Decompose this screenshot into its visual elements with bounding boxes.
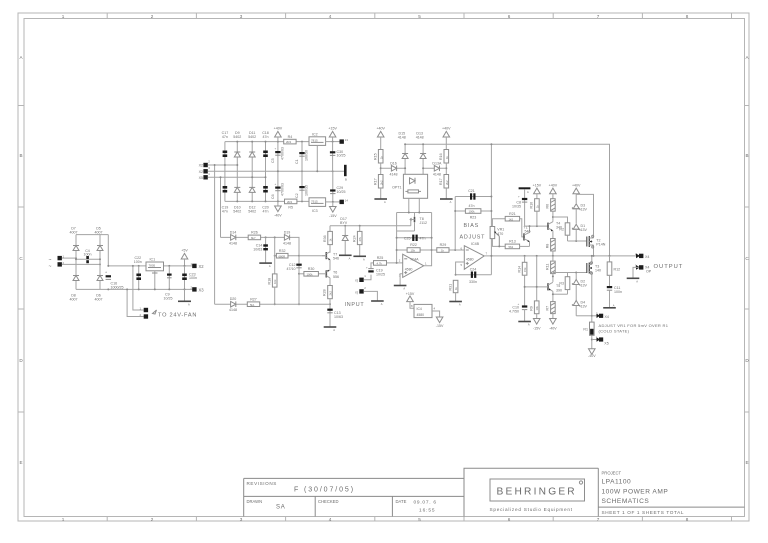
wire C21 row bbox=[455, 196, 491, 198]
power -40V arrow PSU bbox=[274, 201, 282, 217]
wire IC4B plus input bbox=[456, 262, 465, 275]
rail D9/D10 bbox=[236, 142, 238, 202]
wire IC3 out bbox=[326, 201, 340, 203]
svg-text:T7: T7 bbox=[333, 252, 337, 256]
svg-text:A: A bbox=[381, 302, 383, 306]
svg-text:X2: X2 bbox=[199, 264, 205, 269]
node fan wire 2 bbox=[126, 288, 128, 290]
diode D13A bbox=[423, 162, 446, 177]
wire pad2 to bridge bbox=[62, 263, 100, 265]
svg-text:2R2: 2R2 bbox=[287, 200, 293, 204]
wire T7 base row bbox=[299, 255, 326, 257]
resistor R9 bbox=[529, 255, 539, 319]
svg-text:A: A bbox=[269, 264, 271, 268]
wire PSU bottom rail bbox=[225, 200, 309, 202]
svg-text:100n: 100n bbox=[614, 290, 622, 294]
power +15V arrow IC2 bbox=[328, 127, 337, 143]
label TO 24V-FAN bbox=[153, 310, 198, 319]
svg-text:INPUT: INPUT bbox=[345, 302, 365, 308]
svg-text:E: E bbox=[19, 460, 22, 465]
node R23 right bbox=[490, 210, 492, 212]
svg-text:R17: R17 bbox=[439, 178, 443, 185]
node zener gate top bbox=[575, 240, 577, 242]
svg-text:C6: C6 bbox=[271, 194, 275, 199]
node sense feedback bbox=[490, 143, 492, 145]
svg-text:+40V: +40V bbox=[442, 127, 451, 131]
pad X5 sense bbox=[592, 312, 609, 319]
node R23 left bbox=[454, 210, 456, 212]
behringer logo bbox=[490, 479, 585, 501]
svg-text:680R: 680R bbox=[279, 254, 286, 258]
resistor R25 bbox=[374, 256, 387, 265]
svg-text:4007: 4007 bbox=[95, 298, 103, 302]
svg-text:SCHEMATICS: SCHEMATICS bbox=[602, 498, 650, 505]
node bridge right AC bbox=[99, 263, 101, 265]
svg-text:3: 3 bbox=[240, 517, 243, 522]
svg-text:B: B bbox=[19, 153, 22, 158]
wire V+ to IC1 bbox=[108, 265, 194, 267]
svg-text:D13A: D13A bbox=[432, 162, 442, 166]
svg-text:100/35: 100/35 bbox=[305, 185, 309, 196]
node VR1 wiper join bbox=[498, 245, 500, 247]
optocoupler OPT1 bbox=[392, 174, 427, 198]
pad input signal bbox=[355, 274, 366, 283]
power +40V arrow T2 bbox=[572, 183, 581, 203]
zener D2 bbox=[572, 273, 587, 288]
resistor R17 bbox=[374, 175, 384, 189]
svg-text:-40V: -40V bbox=[588, 354, 596, 358]
wire VR1 bottom to R13 bbox=[492, 239, 505, 247]
svg-text:IC2: IC2 bbox=[312, 132, 318, 136]
ground R24 bbox=[353, 256, 366, 261]
wire bridge top bbox=[76, 234, 108, 236]
node R22 right bbox=[431, 249, 433, 251]
ground fan psu bbox=[178, 289, 191, 306]
wire input pad to C19 bbox=[364, 275, 371, 280]
svg-text:A: A bbox=[349, 256, 351, 260]
transistor T8 J112 bbox=[397, 213, 427, 232]
svg-text:IC4B: IC4B bbox=[471, 242, 480, 246]
diode D13 bbox=[416, 132, 426, 175]
ground IC4A plus bbox=[394, 286, 407, 291]
power +40V arrow R16 bbox=[442, 127, 451, 150]
svg-text:REVISIONS: REVISIONS bbox=[247, 481, 277, 486]
svg-text:T6: T6 bbox=[333, 271, 337, 275]
svg-text:10k: 10k bbox=[535, 305, 539, 310]
capacitor C10 bbox=[509, 302, 527, 321]
svg-text:7: 7 bbox=[597, 517, 600, 522]
svg-text:13V: 13V bbox=[581, 208, 588, 212]
capacitor C11 bbox=[607, 286, 622, 308]
svg-text:2: 2 bbox=[151, 517, 154, 522]
svg-text:A: A bbox=[636, 279, 638, 283]
svg-text:6: 6 bbox=[508, 517, 511, 522]
svg-text:4580: 4580 bbox=[466, 257, 474, 261]
svg-text:B: B bbox=[745, 153, 748, 158]
opamp IC4A bbox=[399, 254, 427, 277]
node bottom rail junctions bbox=[236, 200, 303, 202]
ground C13 bbox=[324, 327, 337, 332]
svg-text:-15V: -15V bbox=[533, 326, 541, 330]
ground input bbox=[371, 301, 384, 306]
svg-text:+40V: +40V bbox=[549, 183, 558, 187]
ground R17 bbox=[374, 188, 387, 204]
svg-text:T2: T2 bbox=[596, 238, 600, 242]
svg-text:R18: R18 bbox=[267, 278, 271, 285]
svg-text:R8: R8 bbox=[546, 244, 550, 249]
wire T6 base from R30 bbox=[318, 273, 326, 275]
svg-text:4148: 4148 bbox=[416, 136, 424, 140]
svg-text:R16: R16 bbox=[439, 153, 443, 160]
svg-text:~: ~ bbox=[49, 264, 52, 270]
ground D17 bbox=[339, 255, 352, 260]
svg-text:470: 470 bbox=[497, 232, 503, 236]
regulator IC3 bbox=[309, 198, 326, 213]
node fan wire 1 bbox=[132, 265, 134, 267]
resistor R12 zobel bbox=[607, 256, 620, 286]
svg-text:A: A bbox=[403, 287, 405, 291]
wire clamp top row bbox=[221, 237, 300, 255]
capacitor C23 bbox=[182, 266, 197, 291]
diode D6 bbox=[95, 276, 104, 302]
capacitor C13 bbox=[327, 304, 343, 327]
svg-text:B: B bbox=[345, 178, 347, 182]
wire OPT1 pin bottom right bbox=[418, 198, 420, 212]
svg-text:10/25: 10/25 bbox=[164, 296, 173, 300]
svg-text:+40V: +40V bbox=[572, 183, 581, 187]
power +15V arrow R10 bbox=[533, 183, 542, 198]
wire R23 row bbox=[455, 210, 491, 212]
wire AC leg 2 bbox=[208, 176, 266, 178]
capacitor C14 bbox=[253, 237, 268, 262]
svg-text:R31: R31 bbox=[448, 284, 452, 291]
svg-text:1: 1 bbox=[62, 14, 65, 19]
svg-text:A: A bbox=[188, 303, 190, 307]
svg-text:+: + bbox=[366, 265, 368, 269]
svg-text:10/25: 10/25 bbox=[376, 273, 385, 277]
resistor R23 bbox=[465, 209, 481, 220]
svg-text:OPT1: OPT1 bbox=[392, 186, 401, 190]
diode D14 bbox=[229, 230, 237, 245]
label adjust note bbox=[599, 323, 669, 333]
svg-text:13V: 13V bbox=[581, 305, 588, 309]
svg-text:330n: 330n bbox=[469, 280, 477, 284]
transistor T5 bbox=[548, 282, 562, 301]
wire R22 row bbox=[397, 249, 432, 251]
pad X5 bbox=[199, 166, 211, 174]
wire R15 to junction bbox=[380, 163, 382, 175]
svg-text:+: + bbox=[518, 195, 520, 199]
wire pad1 to bridge bbox=[62, 257, 76, 259]
zener D4 bbox=[572, 285, 587, 316]
svg-text:A: A bbox=[527, 190, 529, 194]
svg-text:5402: 5402 bbox=[248, 135, 256, 139]
svg-text:+: + bbox=[275, 147, 277, 151]
svg-text:ADJUST VR1 FOR 5mV OVER R1: ADJUST VR1 FOR 5mV OVER R1 bbox=[599, 323, 669, 328]
wire OPT1 pin bottom left bbox=[408, 198, 410, 212]
wire bridge bottom bbox=[76, 288, 108, 290]
node R3 bottom bbox=[552, 293, 554, 295]
svg-text:IC4: IC4 bbox=[417, 307, 422, 311]
node zener gate bottom bbox=[575, 272, 577, 274]
wire T4 base row bbox=[525, 225, 548, 227]
transistor T6 bbox=[326, 260, 339, 279]
svg-text:A: A bbox=[363, 257, 365, 261]
node sense D13 bbox=[422, 143, 424, 145]
svg-text:100/50: 100/50 bbox=[305, 150, 309, 161]
node R25 rail bbox=[396, 262, 398, 264]
svg-text:T3: T3 bbox=[595, 264, 599, 268]
wire 0V center bbox=[208, 170, 344, 172]
resistor R27 bbox=[247, 297, 259, 306]
svg-text:D14: D14 bbox=[230, 230, 237, 234]
svg-text:100k: 100k bbox=[469, 210, 476, 214]
svg-text:R26: R26 bbox=[251, 231, 258, 235]
svg-text:R36: R36 bbox=[323, 235, 327, 242]
node zobel out bbox=[609, 255, 611, 257]
wire clamp bottom row bbox=[215, 303, 330, 305]
svg-text:C24: C24 bbox=[470, 267, 477, 271]
svg-text:1: 1 bbox=[62, 517, 65, 522]
power +40V arrow PSU bbox=[274, 127, 283, 142]
svg-text:R25: R25 bbox=[377, 256, 384, 260]
svg-text:D16: D16 bbox=[390, 162, 397, 166]
wire output sense line top bbox=[405, 144, 609, 256]
node R22 left bbox=[396, 249, 398, 251]
ground R18b bbox=[440, 188, 453, 204]
capacitor C22 bbox=[134, 256, 142, 290]
node C14 top bbox=[265, 236, 267, 238]
svg-text:562: 562 bbox=[509, 245, 514, 249]
svg-text:A: A bbox=[450, 200, 452, 204]
resistor R5 bbox=[285, 199, 297, 210]
diode D20 bbox=[229, 297, 237, 312]
pad X13 bbox=[340, 138, 349, 144]
svg-text:LPA1100: LPA1100 bbox=[602, 479, 632, 486]
wire T2 drain top bbox=[576, 194, 593, 238]
svg-text:R1: R1 bbox=[583, 328, 588, 332]
diode D16 bbox=[381, 162, 405, 177]
svg-text:R28: R28 bbox=[323, 289, 327, 296]
svg-text:10/25: 10/25 bbox=[337, 154, 346, 158]
power +40V arrow R15 bbox=[376, 127, 385, 150]
svg-text:R24: R24 bbox=[352, 235, 356, 242]
capacitor C6 4700/63 bbox=[271, 182, 285, 199]
svg-text:5402: 5402 bbox=[233, 135, 241, 139]
diode D12 bbox=[248, 187, 256, 213]
resistor R8 bbox=[546, 239, 556, 257]
svg-text:47n: 47n bbox=[222, 210, 228, 214]
svg-text:100k: 100k bbox=[307, 272, 314, 276]
resistor R36 bbox=[323, 231, 333, 244]
svg-text:390: 390 bbox=[556, 288, 562, 292]
wire R29 row bbox=[432, 249, 465, 251]
svg-text:R9: R9 bbox=[529, 306, 533, 311]
wire zener to source rail bbox=[576, 315, 592, 317]
svg-text:BIAS: BIAS bbox=[464, 223, 479, 229]
wire T7 base bbox=[322, 255, 326, 257]
svg-text:7: 7 bbox=[597, 14, 600, 19]
svg-text:R21: R21 bbox=[509, 212, 516, 216]
svg-text:7805: 7805 bbox=[149, 264, 156, 268]
svg-text:13V: 13V bbox=[581, 228, 588, 232]
svg-text:546: 546 bbox=[333, 257, 339, 261]
resistor R24 bbox=[352, 225, 362, 256]
svg-text:E: E bbox=[745, 460, 748, 465]
svg-text:R27: R27 bbox=[250, 297, 257, 301]
svg-text:5k1: 5k1 bbox=[250, 303, 255, 307]
label BIAS ADJUST bbox=[460, 223, 486, 241]
svg-text:R5: R5 bbox=[288, 206, 293, 210]
svg-text:IC1: IC1 bbox=[150, 258, 156, 262]
svg-text:R10: R10 bbox=[530, 202, 534, 209]
svg-text:x): x) bbox=[355, 279, 358, 283]
wire IC2 out bbox=[326, 141, 340, 143]
wire to fan pad 1 bbox=[133, 266, 144, 310]
svg-text:R7: R7 bbox=[546, 306, 550, 311]
wire VR1 top to R21 bbox=[492, 219, 505, 227]
resistor R13 bbox=[505, 240, 519, 249]
svg-text:6k7: 6k7 bbox=[251, 236, 256, 240]
wire bridge left rail bbox=[75, 235, 77, 290]
right ruler ticks bbox=[745, 106, 750, 413]
wire R32 row bbox=[275, 255, 299, 257]
svg-text:140: 140 bbox=[595, 269, 601, 273]
resistor R4 bbox=[284, 135, 296, 144]
node R16/R18 bbox=[445, 167, 447, 169]
svg-text:R17: R17 bbox=[374, 178, 378, 185]
svg-text:X3: X3 bbox=[199, 288, 205, 293]
capacitor C20 bbox=[262, 186, 269, 214]
svg-text:(COLD STATE): (COLD STATE) bbox=[599, 328, 630, 333]
wire C24 row bbox=[456, 274, 492, 276]
capacitor C25 bbox=[404, 235, 426, 241]
svg-text:15k: 15k bbox=[523, 267, 527, 272]
wire R3 top row bbox=[553, 272, 587, 274]
wire 0V bottom bbox=[108, 288, 194, 290]
svg-text:5: 5 bbox=[418, 517, 421, 522]
diode D7 bbox=[70, 227, 80, 251]
diode D9 bbox=[233, 131, 241, 157]
node D13 junction bbox=[422, 167, 424, 169]
svg-text:OUTPUT: OUTPUT bbox=[654, 264, 684, 270]
rail feedback right from sense bbox=[490, 144, 492, 274]
ground C14 bbox=[259, 263, 272, 268]
diode D15 bbox=[398, 132, 408, 175]
ground C11 bbox=[603, 304, 616, 308]
wire R16 to junction bbox=[445, 163, 447, 175]
power -40V arrow R7 bbox=[549, 319, 557, 331]
diode D5 bbox=[95, 227, 104, 251]
pad X3 pin2 bbox=[191, 285, 205, 292]
wire input gnd pad bbox=[364, 291, 378, 300]
power +5V arrow bbox=[181, 249, 188, 267]
svg-text:5402: 5402 bbox=[248, 210, 256, 214]
node bridge left AC bbox=[75, 257, 77, 259]
diode D8 bbox=[70, 276, 80, 302]
svg-text:SHEET 1 OF 1 SHEETS TOTAL: SHEET 1 OF 1 SHEETS TOTAL bbox=[602, 510, 685, 515]
wire gate feed bbox=[330, 225, 411, 227]
svg-text:R30: R30 bbox=[308, 267, 315, 271]
pad fan 1 bbox=[140, 307, 149, 313]
regulator IC2 bbox=[309, 132, 326, 172]
svg-text:4700/63: 4700/63 bbox=[281, 147, 285, 160]
wire T7 rail bbox=[329, 226, 331, 232]
svg-text:D20: D20 bbox=[230, 297, 237, 301]
svg-text:X5: X5 bbox=[604, 342, 608, 346]
svg-text:SA: SA bbox=[276, 505, 286, 511]
capacitor C9 bbox=[164, 265, 173, 300]
bottom ruler ticks bbox=[107, 517, 731, 522]
svg-text:C25: C25 bbox=[404, 236, 411, 240]
node T1 rail bbox=[529, 225, 531, 227]
svg-text:4007: 4007 bbox=[70, 298, 78, 302]
wire R13 to T1 emitter bbox=[520, 245, 530, 247]
mosfet T3 bbox=[587, 256, 601, 349]
resistor R29 bbox=[437, 243, 449, 252]
transistor T7 bbox=[326, 245, 339, 261]
wire drop to input stage top bbox=[220, 177, 222, 237]
node output feedback bbox=[490, 255, 492, 257]
svg-text:IC4A: IC4A bbox=[411, 258, 420, 262]
pad output minus bbox=[635, 264, 652, 274]
resistor R15 bbox=[374, 150, 384, 164]
transistor T1 bbox=[523, 226, 530, 247]
svg-text:R15: R15 bbox=[374, 153, 378, 160]
node T3 drain bbox=[591, 255, 593, 257]
rail C5/C6 center bbox=[277, 142, 279, 202]
node R15/R17 bbox=[380, 167, 382, 169]
wire R25 to minus input bbox=[387, 262, 403, 264]
pad X2 pin1 bbox=[191, 262, 205, 269]
wire to fan pad 2 bbox=[127, 289, 144, 316]
wire C25 row bbox=[397, 237, 432, 239]
svg-text:Specialized Studio Equipment: Specialized Studio Equipment bbox=[490, 507, 573, 512]
capacitor C12 bbox=[287, 256, 302, 305]
svg-text:7915: 7915 bbox=[311, 199, 318, 203]
wire C4 row bbox=[76, 258, 100, 260]
svg-text:100n: 100n bbox=[134, 260, 142, 264]
svg-text:6: 6 bbox=[508, 14, 511, 19]
svg-text:8: 8 bbox=[686, 517, 689, 522]
node R32 left bbox=[274, 255, 276, 257]
svg-text:4148: 4148 bbox=[433, 172, 441, 176]
svg-text:13V: 13V bbox=[581, 284, 588, 288]
pad X8 bbox=[592, 335, 609, 345]
pad input gnd bbox=[355, 286, 366, 295]
wire R2 to gate bbox=[568, 240, 587, 242]
node R1 pad row bbox=[591, 339, 593, 341]
svg-text:4148: 4148 bbox=[398, 136, 406, 140]
capacitor C19 bbox=[222, 186, 229, 214]
resistor R18 vertical bbox=[267, 237, 277, 305]
resistor R6 bbox=[546, 199, 556, 221]
svg-text:2k2: 2k2 bbox=[379, 180, 383, 185]
node sense D15 bbox=[404, 143, 406, 145]
svg-text:3: 3 bbox=[240, 14, 243, 19]
wire AC leg 1 bbox=[208, 164, 238, 166]
node T8 row bbox=[408, 212, 421, 214]
svg-text:+: + bbox=[275, 182, 277, 186]
svg-text:556: 556 bbox=[333, 275, 339, 279]
left ruler ticks bbox=[18, 106, 24, 413]
svg-text:4148: 4148 bbox=[283, 241, 291, 245]
resistor R26 bbox=[248, 231, 260, 240]
svg-text:C21: C21 bbox=[468, 189, 475, 193]
svg-text:OP: OP bbox=[646, 269, 652, 273]
node C4 left bbox=[75, 258, 77, 260]
potentiometer VR1 bbox=[490, 227, 504, 247]
